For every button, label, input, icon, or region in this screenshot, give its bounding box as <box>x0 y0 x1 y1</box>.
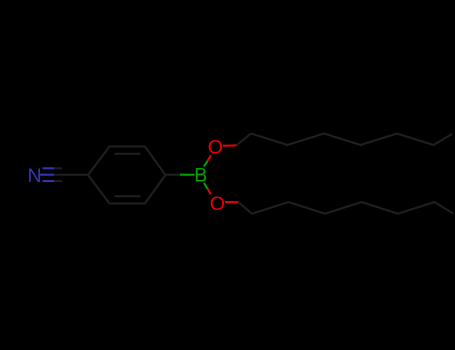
bond O(bottom) - chain C1' : red half <box>225 201 239 203</box>
top hexyl chain : carbon bonds <box>237 134 453 146</box>
benzene ring <box>88 147 166 204</box>
svg-text:O: O <box>208 136 223 158</box>
bond ring - B : carbon half <box>166 174 181 176</box>
svg-text:B: B <box>194 164 207 186</box>
svg-text:N: N <box>28 165 42 187</box>
bond ring - B : boron half <box>180 174 195 176</box>
bond O(top) - chain C1 : red half <box>223 144 237 146</box>
nitrile triple bond carbon halves : dark <box>54 168 65 181</box>
bond B - O(bottom) <box>204 183 208 189</box>
svg-text:O: O <box>210 193 225 215</box>
bond B - O(top) <box>204 161 208 167</box>
aromatic inner line bottom <box>115 195 141 197</box>
bond nitrileC - ring <box>65 174 89 176</box>
bottom hexyl chain : carbon bonds <box>239 202 454 214</box>
aromatic inner line top <box>115 153 141 155</box>
nitrile triple bond N#C : blue halves <box>40 168 54 181</box>
